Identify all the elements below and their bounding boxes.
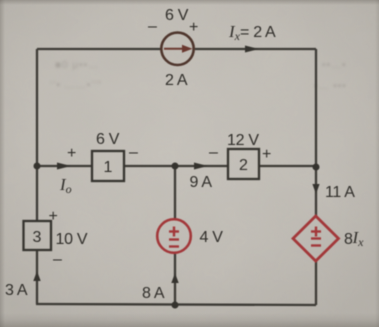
svg-text:9 A: 9 A [190,174,213,191]
svg-text:+: + [262,146,271,163]
svg-text:12 V: 12 V [227,132,259,149]
svg-text:–: – [148,18,157,35]
svg-text:–: – [53,251,62,268]
svg-text:1: 1 [104,159,113,176]
svg-text:–: – [129,144,138,161]
svg-text:11 A: 11 A [325,184,355,201]
svg-text:6 V: 6 V [165,7,189,24]
svg-text:+: + [49,208,58,225]
svg-text:+: + [67,145,76,162]
svg-text:4 V: 4 V [200,229,224,246]
svg-text:2 A: 2 A [165,72,188,89]
svg-text:6 V: 6 V [96,131,120,148]
svg-text:–: – [209,144,218,161]
svg-text:10 V: 10 V [56,231,88,248]
svg-text:2: 2 [239,157,248,174]
svg-text:3 A: 3 A [5,282,28,299]
svg-text:+: + [189,19,198,36]
svg-text:8 A: 8 A [142,285,165,302]
svg-text:3: 3 [33,229,42,246]
